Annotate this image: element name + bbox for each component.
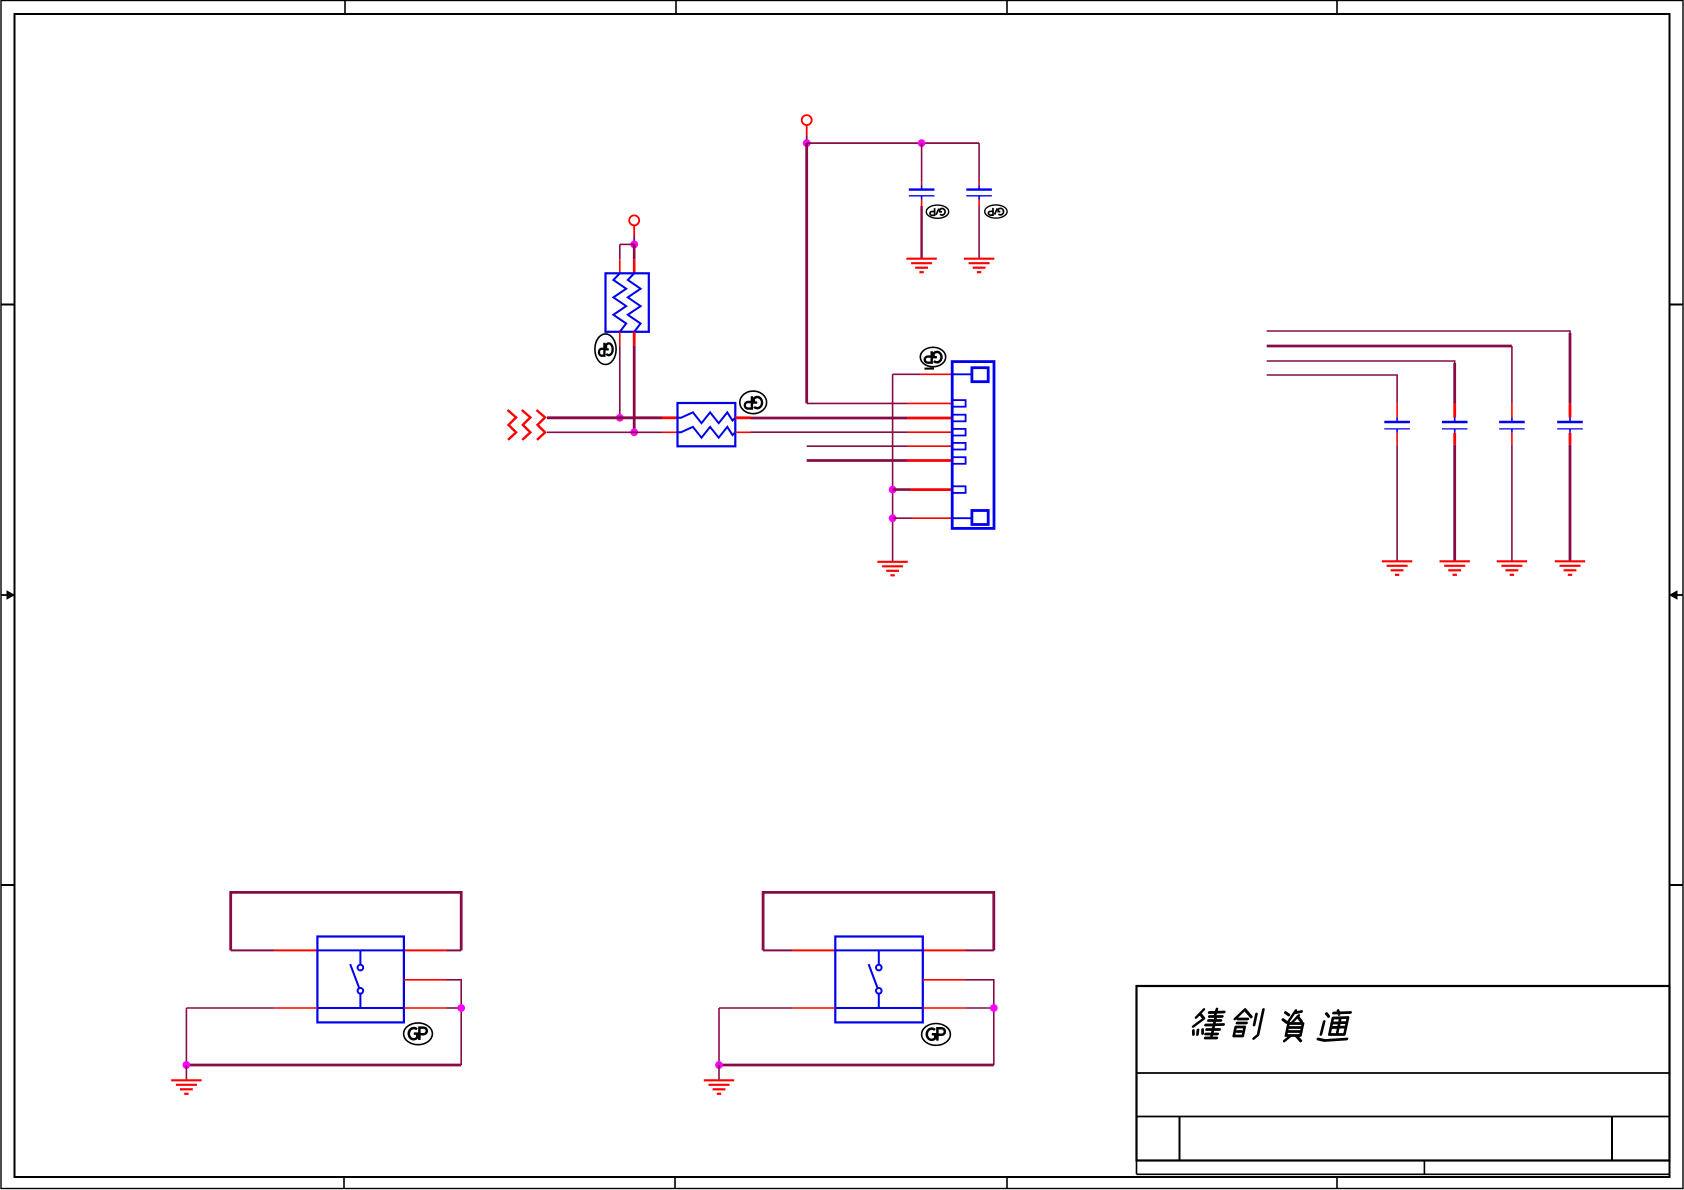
wire SW2 pin2 right [966,949,994,951]
capacitor C2 pin stub upper [978,181,980,185]
ground (SW2) [704,1080,734,1094]
capacitor C1 [909,190,935,200]
pin stub SW1 pin1 [275,949,318,951]
title block [1137,986,1670,1174]
resistor RP1 element A [613,273,626,332]
wire C5 to ground [1511,445,1513,562]
switch SW2 pin line top [835,949,923,951]
wire net A vertical thick [1569,333,1572,403]
pin stub RP2 pin1 right [735,416,750,419]
junction node A [803,139,811,147]
connector J1 pad link bottom [952,517,972,519]
pin stub SW2 pin1 [793,949,836,951]
wire SW2 pin3 left [719,1007,793,1009]
resistor RP2 element 1 [678,412,736,423]
capacitor C6 pin stub lower [1569,433,1572,445]
zone tick right 2 [1670,884,1684,886]
connector J1 mounting pad top [972,368,988,382]
switch SW1 contact symbol [350,950,363,1008]
wire SW2 pin4 right [966,1007,994,1009]
junction node SW1 right [457,1004,465,1012]
wire net B vertical thin [1511,346,1513,403]
connector J1 pin tab 6 [952,457,965,464]
reference balloon GP (RP1) [595,334,616,365]
pin stub SW2 pin2 [923,949,966,951]
wire SW1 bottom thick [186,1064,461,1067]
pin stub RP2 pin2 right [735,431,750,433]
ground (SW1) [171,1080,201,1094]
wire SW1 pin1 left [231,949,275,951]
wire net B thick [1267,345,1512,348]
wire RP1 A to net1 [619,346,621,418]
ground (C3) [1382,561,1412,575]
pin stub SW2 pin5 [923,979,966,981]
resistor RP1 element B [628,273,641,332]
pin stub SW2 pin4 [923,1007,966,1009]
zone tick left 2 [1,884,15,886]
connector J1 mounting pad bottom [972,511,988,525]
connector J1 pad link top [952,373,972,375]
zone tick bottom 3 [1006,1177,1008,1189]
reference balloon G/P (C2) [985,205,1007,218]
ground (C1) [906,259,936,273]
wire C6 to ground thick [1569,445,1572,562]
capacitor C6 pin stub upper [1569,403,1572,417]
capacitor C1 pin stub lower [921,200,923,207]
reference balloon GP (SW1) [404,1023,433,1045]
wire net C vertical thick [1453,363,1456,403]
reference balloon GP (J1) [920,347,945,368]
zone tick top 1 [344,1,346,15]
off-page connector chevron 3 [537,410,546,440]
switch SW2 pin line bottom [835,1007,923,1009]
wire SW1 to ground [185,1065,187,1080]
zone tick top 4 [1336,1,1338,15]
capacitor C2 wire upper [978,143,980,181]
reference balloon G/P (C1) [926,205,948,218]
switch SW2 contact symbol [869,950,882,1008]
ground (C6) [1555,561,1585,575]
wire RP2 pin1 to J1 pin3 [751,417,908,420]
pin stub J1 pin8 [912,517,952,519]
wire SW1 pin2 right [447,949,462,951]
pin stub RP1 pin B bottom [633,332,636,346]
reference balloon GP (RP2) [740,391,767,414]
wire net C [1267,361,1455,403]
wire SW2 bottom thick [719,1064,994,1067]
switch SW1 body [317,937,404,1023]
resistor pack RP1 body [606,273,649,332]
resistor pack RP2 body [678,403,736,446]
pin stub SW1 pin3 [275,1007,318,1009]
pin stub SW1 pin5 [404,979,447,981]
wire C3 to ground [1396,445,1398,562]
wire C2 to ground [978,206,980,259]
pin stub SW1 pin4 [404,1007,447,1009]
junction node SW2 right [990,1004,998,1012]
wire SW2 pin1 left [763,949,793,951]
junction node gnd2 [889,514,897,522]
pin stub J1 pin1 [920,373,952,375]
zone tick right 1 [1670,304,1684,306]
wire C4 to ground thick [1453,445,1456,562]
connector J1 pin tab 3 [952,415,965,422]
connector J1 pin tab 2 [952,400,965,407]
zone tick left 1 [1,304,15,306]
capacitor C3 pin stub upper [1396,403,1398,417]
connector J1 pin tab 4 [952,429,965,436]
zone tick top 2 [675,1,677,15]
pin stub J1 pin5 [907,445,952,447]
power port circle (top right net) [802,115,812,125]
junction node SW1 ground [183,1061,191,1069]
wire net D [1267,375,1397,403]
wire SW2 pin5 corner [966,980,994,1065]
pin stub J1 pin6 [907,459,952,462]
switch SW1 pin line bottom [317,1007,404,1009]
wire SW2 to ground [718,1065,720,1080]
wire top loop SW2 [763,892,994,950]
wire branch horizontal [620,243,634,245]
pin stub RP2 pin2 left [662,431,678,433]
junction node [630,241,638,249]
pin stub J1 pin4 [907,431,952,433]
pin stub from port 2 [806,125,808,136]
company logo text (calligraphic CJK) [1191,1009,1353,1041]
connector J1 pin tab 7 [952,486,965,493]
pin stub J1 pin2 [907,402,952,404]
capacitor C4 pin stub upper [1453,403,1456,417]
pin stub RP1 pin A bottom [619,332,621,346]
pin stub J1 pin3 [907,417,952,420]
junction node net2 [630,428,638,436]
pin stub RP2 pin1 left [662,416,678,419]
off-page connector chevron 2 [522,410,531,440]
capacitor C1 wire upper [921,143,923,181]
ground (J1) [877,562,907,576]
wire J1 pin8 [893,517,912,519]
zone tick top 3 [1006,1,1008,15]
wire J1 pin1 horizontal [893,373,920,375]
zone tick bottom 2 [674,1177,676,1189]
resistor RP2 element 2 [678,427,736,438]
wire top horizontal [807,142,979,144]
wire J1 pin6 thick [807,459,907,462]
switch SW2 body [835,937,923,1023]
capacitor C1 pin stub upper [921,181,923,185]
connector J1 body [952,362,994,529]
wire SW1 pin5 corner [447,980,462,1065]
zone tick bottom 1 [343,1177,345,1189]
wire branch vertical left [619,244,621,259]
pin stub RP1 pin B top [633,259,636,273]
capacitor C5 pin stub lower [1511,433,1513,445]
capacitor C4 [1442,422,1468,433]
wire SW2 left vertical [718,1008,720,1065]
capacitor C4 pin stub lower [1453,433,1456,445]
wire SW1 pin3 left [186,1007,274,1009]
junction node net1 [616,414,624,422]
wire SW1 left vertical [185,1008,187,1065]
capacitor C2 [966,190,992,200]
junction node SW2 ground [715,1061,723,1069]
wire RP1 B to net2 [633,346,636,433]
mid-right arrow [1669,590,1683,600]
wire net1 thick horizontal [547,416,662,419]
wire C1 to ground [920,206,922,259]
pin stub J1 pin7 [910,488,952,491]
wire port2 to junction [806,135,808,143]
ground (C5) [1497,561,1527,575]
zone tick bottom 4 [1336,1177,1338,1189]
capacitor C3 pin stub lower [1396,433,1398,445]
wire port to junction [633,236,635,245]
wire SW1 pin4 right [447,1007,462,1009]
pin stub from port [633,225,635,236]
pin stub SW1 pin2 [404,949,447,951]
wire net2 thin horizontal [547,431,662,433]
wire J1 pin7 [893,488,910,491]
wire to J1 pin2 [807,402,907,404]
wire ground bus vertical [892,374,894,562]
wire top loop SW1 [231,892,462,950]
capacitor C5 pin stub upper [1511,403,1513,417]
off-page connector chevron 1 [508,410,517,440]
capacitor C6 [1557,422,1583,433]
junction node B [918,139,926,147]
ground (C4) [1440,561,1470,575]
reference balloon GP (SW2) [922,1024,951,1046]
wire main vertical [633,244,636,259]
wire RP2 pin2 to J1 pin4 [751,431,908,433]
wire net A [1267,331,1570,403]
junction node gnd1 [889,486,897,494]
power port circle (top of RP1) [629,215,639,225]
connector J1 pin tab 5 [952,443,965,450]
pin stub RP1 pin A top [619,259,621,273]
mid-left arrow [1,590,15,600]
capacitor C5 [1499,422,1525,433]
switch SW1 pin line top [317,949,404,951]
pin stub SW2 pin3 [793,1007,836,1009]
capacitor C3 [1384,422,1410,433]
capacitor C2 pin stub lower [978,200,980,207]
wire J1 pin5 [807,445,907,447]
ground (C2) [964,259,994,273]
wire long vertical thick [805,143,808,403]
